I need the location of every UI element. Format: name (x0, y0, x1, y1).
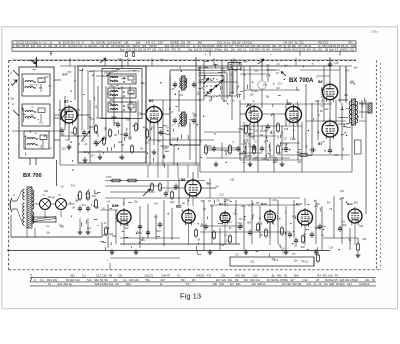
svg-text:R12: R12 (273, 200, 278, 202)
svg-text:G4: G4 (324, 282, 328, 286)
svg-text:C19: C19 (323, 41, 328, 45)
svg-text:B3: B3 (219, 202, 223, 206)
svg-text:B11: B11 (176, 205, 182, 209)
svg-text:12: 12 (263, 282, 266, 286)
svg-text:3k9: 3k9 (354, 278, 359, 282)
svg-text:C62: C62 (223, 101, 228, 103)
svg-text:6p8: 6p8 (340, 282, 345, 286)
svg-text:S62: S62 (70, 273, 75, 277)
svg-text:470: 470 (207, 273, 212, 277)
svg-text:R12: R12 (364, 282, 369, 286)
svg-text:S28: S28 (128, 138, 133, 140)
svg-text:R9: R9 (244, 278, 248, 282)
svg-text:R16: R16 (165, 146, 170, 148)
svg-text:C31: C31 (126, 48, 131, 52)
svg-text:100: 100 (212, 282, 217, 286)
svg-text:R9: R9 (235, 278, 239, 282)
svg-text:0,1: 0,1 (186, 44, 190, 48)
svg-text:G4: G4 (262, 44, 266, 48)
svg-text:C12: C12 (304, 261, 309, 263)
svg-text:R12: R12 (93, 44, 98, 48)
svg-text:56p: 56p (283, 278, 288, 282)
svg-text:0,1: 0,1 (82, 273, 86, 277)
svg-text:S14: S14 (163, 148, 168, 150)
svg-text:C31: C31 (179, 95, 184, 97)
svg-text:0,5: 0,5 (335, 48, 339, 52)
svg-text:2n: 2n (314, 282, 317, 286)
svg-text:C8: C8 (54, 44, 58, 48)
svg-text:C24: C24 (65, 140, 70, 142)
svg-text:4700: 4700 (106, 176, 112, 179)
svg-text:C47: C47 (227, 222, 232, 224)
svg-text:56p: 56p (239, 154, 244, 156)
svg-text:C96: C96 (362, 238, 367, 241)
svg-text:S14: S14 (109, 282, 114, 286)
svg-text:22k: 22k (31, 44, 36, 48)
svg-text:C19: C19 (100, 44, 105, 48)
svg-text:22k: 22k (252, 282, 257, 286)
svg-text:S28: S28 (292, 282, 297, 286)
svg-text:S41: S41 (165, 48, 170, 52)
svg-text:4k7: 4k7 (161, 278, 166, 282)
svg-text:10k: 10k (134, 278, 139, 282)
svg-text:6p8: 6p8 (329, 48, 334, 52)
svg-text:C62: C62 (219, 282, 224, 286)
svg-text:S41: S41 (277, 273, 282, 277)
svg-text:S14: S14 (82, 205, 87, 207)
svg-text:R21: R21 (145, 142, 150, 144)
svg-text:C24: C24 (254, 131, 259, 133)
svg-text:25p: 25p (312, 48, 317, 52)
svg-text:C19: C19 (78, 44, 83, 48)
svg-text:S41: S41 (71, 185, 76, 187)
svg-text:17.0,n.: 17.0,n. (371, 30, 379, 34)
svg-text:22k: 22k (152, 48, 157, 52)
svg-text:R21: R21 (107, 93, 112, 95)
svg-text:C12: C12 (96, 273, 101, 277)
svg-text:R21: R21 (92, 196, 97, 198)
svg-text:R12: R12 (156, 231, 161, 233)
svg-text:R9: R9 (267, 44, 271, 48)
svg-text:S14: S14 (70, 41, 75, 45)
svg-text:C31: C31 (272, 44, 277, 48)
svg-text:1M: 1M (237, 41, 241, 45)
svg-text:56p: 56p (218, 48, 223, 52)
svg-text:C8: C8 (316, 278, 320, 282)
svg-text:S41: S41 (87, 278, 92, 282)
svg-text:R12: R12 (253, 160, 258, 162)
svg-text:C24: C24 (221, 278, 226, 282)
svg-text:C12: C12 (290, 139, 295, 141)
svg-text:50: 50 (100, 278, 103, 282)
svg-text:C24: C24 (309, 219, 314, 221)
svg-text:C24: C24 (324, 109, 329, 111)
svg-text:C19: C19 (72, 44, 77, 48)
svg-text:C5: C5 (114, 278, 118, 282)
svg-text:0,1: 0,1 (152, 41, 156, 45)
svg-text:R7: R7 (154, 44, 158, 48)
svg-text:4k7: 4k7 (290, 278, 295, 282)
svg-text:C62: C62 (251, 44, 256, 48)
svg-text:C62: C62 (138, 233, 143, 235)
svg-text:S51: S51 (318, 48, 323, 52)
svg-text:5p: 5p (69, 282, 72, 286)
svg-text:C8: C8 (111, 44, 115, 48)
svg-text:C24: C24 (158, 41, 163, 45)
svg-text:1M: 1M (294, 245, 297, 247)
svg-text:B14: B14 (347, 202, 353, 206)
svg-text:S28: S28 (284, 129, 289, 131)
svg-text:5p: 5p (272, 273, 275, 277)
svg-text:S9: S9 (104, 278, 108, 282)
svg-text:S62: S62 (94, 278, 99, 282)
svg-text:C47: C47 (229, 44, 234, 48)
svg-text:22k: 22k (138, 48, 143, 52)
svg-text:C12: C12 (224, 205, 229, 207)
svg-text:C47: C47 (165, 273, 170, 277)
svg-text:C47: C47 (207, 184, 212, 186)
svg-text:R9: R9 (181, 278, 185, 282)
svg-text:10k: 10k (181, 41, 186, 45)
svg-text:S14: S14 (347, 282, 352, 286)
svg-text:C47: C47 (90, 156, 95, 158)
svg-text:G4: G4 (284, 41, 288, 45)
svg-text:25p: 25p (53, 278, 58, 282)
svg-text:25p: 25p (134, 202, 139, 204)
svg-text:C19: C19 (244, 142, 249, 144)
svg-text:100: 100 (241, 273, 246, 277)
svg-text:C62: C62 (208, 48, 213, 52)
svg-text:C62: C62 (200, 273, 205, 277)
svg-text:C8: C8 (115, 282, 119, 286)
svg-text:C47: C47 (345, 70, 350, 72)
svg-text:C19: C19 (278, 84, 283, 86)
svg-text:C8: C8 (278, 44, 282, 48)
svg-text:56p: 56p (126, 119, 131, 121)
svg-text:R21: R21 (208, 146, 213, 148)
svg-text:+: + (107, 258, 109, 262)
svg-text:S41: S41 (348, 41, 353, 45)
svg-text:S28: S28 (329, 282, 334, 286)
svg-text:25p: 25p (292, 44, 297, 48)
svg-text:BX 700: BX 700 (23, 173, 42, 179)
svg-text:C62: C62 (239, 44, 244, 48)
svg-text:C31: C31 (351, 44, 356, 48)
svg-text:1M: 1M (215, 187, 218, 189)
svg-text:56p: 56p (145, 278, 150, 282)
svg-text:R7: R7 (63, 44, 67, 48)
svg-text:B4: B4 (247, 103, 251, 107)
svg-text:3k9: 3k9 (306, 48, 311, 52)
svg-text:0,5: 0,5 (186, 282, 190, 286)
svg-text:C12: C12 (255, 278, 260, 282)
svg-text:R21: R21 (47, 278, 52, 282)
svg-text:0,1: 0,1 (43, 41, 47, 45)
svg-text:S41: S41 (277, 48, 282, 52)
svg-text:C12: C12 (303, 278, 308, 282)
svg-text:A: A (10, 71, 12, 75)
svg-text:22k: 22k (365, 278, 370, 282)
svg-text:C5: C5 (334, 278, 338, 282)
svg-text:470: 470 (322, 273, 327, 277)
svg-text:B9: B9 (181, 178, 185, 182)
svg-text:3k9: 3k9 (294, 273, 299, 277)
svg-text:C62: C62 (132, 48, 137, 52)
svg-text:12: 12 (318, 282, 321, 286)
svg-text:S14: S14 (245, 44, 250, 48)
svg-text:6p8: 6p8 (284, 66, 289, 68)
svg-text:S41: S41 (160, 59, 165, 62)
svg-text:4k7: 4k7 (216, 278, 221, 282)
svg-text:R21: R21 (236, 282, 241, 286)
svg-text:4k7: 4k7 (230, 282, 235, 286)
svg-text:R21: R21 (175, 41, 180, 45)
svg-text:S41: S41 (113, 71, 118, 73)
svg-text:B6: B6 (318, 80, 322, 84)
svg-text:C62: C62 (102, 273, 107, 277)
svg-text:C24: C24 (329, 248, 334, 250)
svg-text:R12: R12 (292, 216, 297, 218)
svg-text:50: 50 (372, 278, 375, 282)
svg-text:C78: C78 (334, 62, 339, 65)
svg-text:C31: C31 (340, 191, 345, 193)
svg-text:22k: 22k (301, 48, 306, 52)
svg-text:R7: R7 (148, 48, 152, 52)
svg-text:S28: S28 (354, 203, 359, 205)
svg-text:S9: S9 (267, 278, 271, 282)
svg-text:S14: S14 (288, 41, 293, 45)
svg-text:0,1: 0,1 (123, 278, 127, 282)
svg-text:C12: C12 (220, 195, 225, 197)
svg-text:S41: S41 (101, 41, 106, 45)
svg-text:S14: S14 (75, 278, 80, 282)
svg-text:R3: R3 (317, 273, 321, 277)
svg-text:B10: B10 (112, 204, 118, 208)
svg-text:C79: C79 (334, 154, 339, 157)
svg-text:1M: 1M (298, 44, 302, 48)
svg-text:C62: C62 (343, 48, 348, 52)
svg-text:3k9: 3k9 (70, 278, 75, 282)
svg-text:BX 700A: BX 700A (289, 78, 314, 84)
svg-text:C31: C31 (307, 282, 312, 286)
svg-text:C31: C31 (350, 82, 355, 84)
svg-text:C62: C62 (349, 48, 354, 52)
svg-text:B1: B1 (64, 100, 68, 104)
svg-text:18k: 18k (124, 41, 129, 45)
svg-text:25p: 25p (262, 158, 267, 160)
svg-text:C19: C19 (217, 41, 222, 45)
svg-text:C31: C31 (250, 261, 255, 263)
svg-text:S62: S62 (13, 80, 18, 82)
svg-text:S50: S50 (110, 86, 115, 88)
svg-text:2n: 2n (160, 282, 163, 286)
svg-text:0,5: 0,5 (76, 41, 80, 45)
svg-text:C31: C31 (180, 44, 185, 48)
svg-text:R12: R12 (126, 282, 131, 286)
svg-text:C31: C31 (250, 48, 255, 52)
svg-text:1M: 1M (72, 207, 75, 209)
svg-text:10k: 10k (194, 48, 199, 52)
svg-text:C12: C12 (87, 228, 92, 230)
svg-text:S62: S62 (112, 236, 117, 238)
svg-text:R9: R9 (109, 273, 113, 277)
svg-text:S28: S28 (301, 247, 306, 249)
svg-text:S62: S62 (237, 48, 242, 52)
svg-text:0,1: 0,1 (40, 278, 44, 282)
svg-text:470: 470 (257, 44, 262, 48)
svg-text:4k7: 4k7 (118, 41, 123, 45)
svg-text:1M: 1M (235, 255, 238, 257)
svg-text:C47: C47 (241, 144, 246, 146)
svg-text:C12: C12 (299, 41, 304, 45)
svg-text:F8a: F8a (243, 60, 248, 64)
svg-text:3k9: 3k9 (198, 41, 203, 45)
svg-text:0,1: 0,1 (243, 48, 247, 52)
svg-text:S62: S62 (165, 44, 170, 48)
svg-text:S41: S41 (48, 44, 53, 48)
svg-text:S84: S84 (344, 94, 349, 97)
svg-text:4k7: 4k7 (266, 48, 271, 52)
svg-text:470: 470 (171, 48, 176, 52)
svg-text:100: 100 (286, 282, 291, 286)
svg-text:R7: R7 (335, 273, 339, 277)
svg-text:1M: 1M (325, 48, 329, 52)
svg-text:C62: C62 (322, 44, 327, 48)
svg-text:25p: 25p (228, 278, 233, 282)
svg-text:R21: R21 (16, 44, 21, 48)
svg-text:MF: MF (230, 65, 234, 69)
svg-text:1M: 1M (16, 41, 20, 45)
svg-text:10k: 10k (231, 48, 236, 52)
svg-text:B12: B12 (261, 202, 267, 206)
svg-text:F2a: F2a (118, 57, 123, 61)
svg-text:C31: C31 (118, 273, 123, 277)
svg-text:B2: B2 (149, 99, 153, 103)
svg-text:100: 100 (328, 273, 333, 277)
svg-text:C62: C62 (247, 41, 252, 45)
svg-text:S58: S58 (110, 100, 115, 102)
svg-text:22k: 22k (63, 282, 68, 286)
svg-text:R3: R3 (341, 44, 345, 48)
svg-text:3k9: 3k9 (120, 44, 125, 48)
svg-text:10k: 10k (287, 48, 292, 52)
svg-text:C31: C31 (158, 48, 163, 52)
svg-text:R9: R9 (224, 44, 228, 48)
svg-text:22k: 22k (126, 44, 131, 48)
svg-text:R16: R16 (255, 48, 260, 52)
svg-text:C12: C12 (67, 147, 72, 149)
svg-text:100: 100 (129, 278, 134, 282)
svg-text:100: 100 (37, 44, 42, 48)
svg-text:6p8: 6p8 (340, 278, 345, 282)
svg-text:C12: C12 (341, 221, 346, 223)
svg-text:56p: 56p (120, 48, 125, 52)
svg-text:B13: B13 (296, 202, 302, 206)
svg-text:6p8: 6p8 (136, 41, 141, 45)
svg-text:R3: R3 (262, 48, 266, 52)
svg-text:6p8: 6p8 (142, 44, 147, 48)
svg-text:S41: S41 (58, 282, 63, 286)
svg-text:C8: C8 (284, 273, 288, 277)
svg-text:3k9: 3k9 (224, 48, 229, 52)
svg-text:S62: S62 (44, 191, 49, 193)
svg-text:25p: 25p (188, 48, 193, 52)
svg-text:C31: C31 (148, 273, 153, 277)
svg-text:12: 12 (177, 273, 180, 277)
svg-text:R7: R7 (26, 44, 30, 48)
svg-text:22k: 22k (221, 273, 226, 277)
svg-text:B5: B5 (287, 102, 291, 106)
svg-text:C24: C24 (340, 198, 345, 200)
svg-text:S14: S14 (241, 129, 246, 131)
svg-text:12: 12 (48, 282, 51, 286)
svg-text:470: 470 (146, 41, 151, 45)
svg-text:S47: S47 (62, 73, 68, 77)
svg-text:Fig 13: Fig 13 (180, 291, 201, 300)
svg-text:C12: C12 (253, 273, 258, 277)
